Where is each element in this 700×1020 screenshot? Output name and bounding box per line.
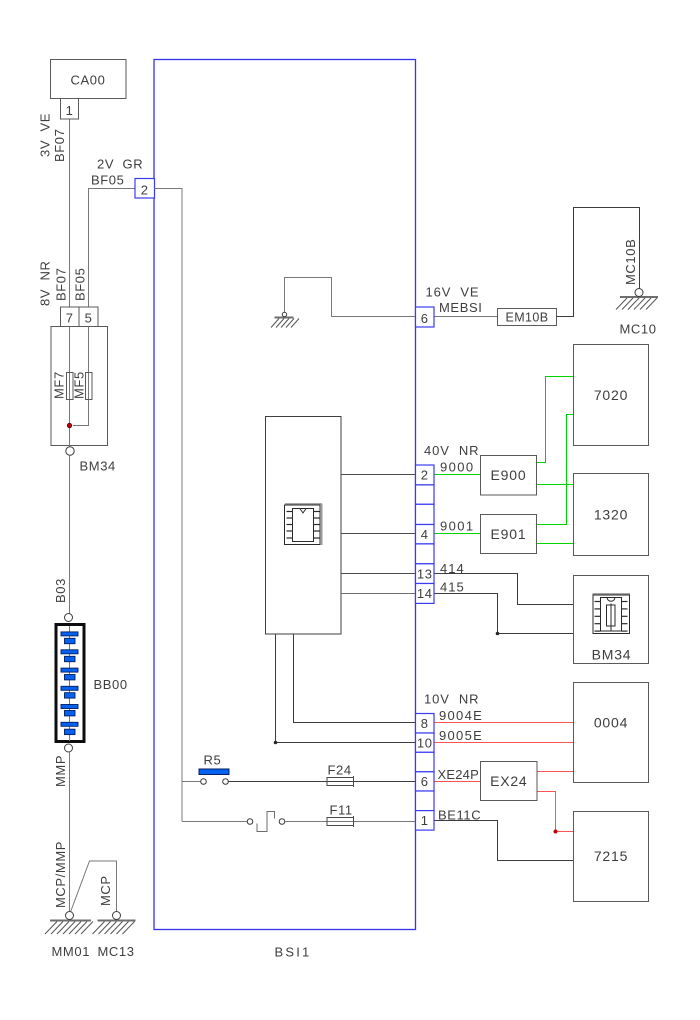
wire pin1 to 7215 (434, 821, 574, 861)
svg-text:2: 2 (421, 468, 429, 483)
svg-text:MMP: MMP (53, 755, 68, 787)
wire EM10B to ground MC10 (557, 208, 640, 317)
svg-text:BM34: BM34 (80, 459, 116, 474)
fuse F11 (327, 818, 354, 826)
svg-text:3V VE: 3V VE (38, 113, 53, 157)
svg-text:BF05: BF05 (72, 268, 87, 301)
red wire pin10 to 0004 (434, 742, 574, 744)
wire module to pin4 (341, 533, 416, 535)
wire through fuse MF7 (69, 327, 71, 448)
pin box (unlabeled) (416, 791, 435, 811)
wire branch to relay R5 (182, 781, 201, 783)
ground symbol inside BSI (271, 312, 299, 327)
svg-text:MF7: MF7 (51, 371, 66, 399)
svg-text:MC10B: MC10B (623, 239, 638, 285)
switch contact in BE11C line (247, 812, 285, 832)
green wire E900 to 7020 (537, 377, 574, 463)
green wire E900 to 1320 (537, 484, 574, 486)
component 7215 (574, 812, 649, 902)
pin 1 of CA00 (61, 99, 79, 120)
wire module to pin14 (341, 593, 416, 595)
fuse MF5 (86, 373, 93, 400)
pin 4 of BSI1 (416, 525, 435, 544)
svg-text:9005E: 9005E (439, 728, 483, 743)
green wire E901 to 1320 (537, 543, 574, 545)
pin 10 of BSI1 (416, 733, 435, 752)
pin 2 of BSI1 (416, 465, 435, 485)
svg-text:1320: 1320 (594, 507, 628, 523)
pin 2 of BSI1 (left edge) (135, 179, 155, 199)
svg-text:9004E: 9004E (439, 708, 483, 723)
node battery - terminal (65, 744, 73, 752)
pin 6 of BSI1 (416, 772, 435, 791)
pin box (unlabeled) (416, 752, 435, 772)
wire pin2 to pin5 (89, 189, 136, 308)
junction dot MF5/MF7 (67, 423, 71, 427)
pin 7 (61, 307, 80, 327)
svg-text:5: 5 (85, 311, 93, 326)
svg-text:MC13: MC13 (98, 944, 135, 959)
wire battery to ground MM01 (69, 752, 71, 912)
fuse F24 (327, 778, 354, 786)
wire switch to pin1 (285, 821, 416, 823)
component 1320 (574, 474, 649, 556)
pin box (unlabeled) (416, 544, 435, 564)
wire pin1 CA00 to pin7 (69, 119, 71, 307)
svg-text:9000: 9000 (440, 460, 475, 475)
svg-text:MM01: MM01 (52, 944, 91, 959)
pin 13 of BSI1 (416, 564, 435, 584)
component 0004 (574, 683, 649, 783)
svg-text:BB00: BB00 (94, 677, 128, 692)
svg-text:1: 1 (421, 813, 429, 828)
svg-text:6: 6 (421, 774, 429, 789)
svg-text:7020: 7020 (594, 387, 628, 403)
svg-text:1: 1 (66, 103, 74, 118)
wire BM34 to battery (69, 455, 71, 613)
svg-text:XE24P: XE24P (438, 767, 479, 782)
red wire pin8 to 0004 (434, 722, 574, 724)
wire pin14 to BM34 (434, 594, 574, 634)
fuse box BM34 outline (51, 327, 108, 446)
ground MM01 (45, 912, 93, 935)
connector EX24 (481, 762, 538, 801)
svg-text:E900: E900 (491, 467, 527, 483)
IC symbol inside BM34 (593, 594, 631, 634)
svg-text:MCP: MCP (98, 875, 113, 906)
green wire pin2 to E900 (434, 474, 481, 476)
pin 5 (79, 307, 98, 327)
node BM34 terminal (66, 447, 74, 455)
svg-text:0004: 0004 (594, 715, 628, 731)
pin 14 of BSI1 (416, 584, 435, 604)
svg-text:14: 14 (417, 586, 433, 601)
svg-text:R5: R5 (204, 753, 222, 768)
svg-text:415: 415 (440, 580, 465, 595)
wire branch MM01 to MC13 (71, 861, 117, 912)
ECU box BSI1 outline (154, 60, 416, 930)
connector E901 (481, 515, 537, 554)
component BM34 (574, 576, 649, 664)
svg-text:BM34: BM34 (592, 647, 632, 663)
svg-text:MC10: MC10 (620, 322, 657, 337)
ground wire inside BSI to pin6 (285, 278, 416, 317)
pin 8 of BSI1 (416, 714, 435, 734)
svg-text:40V NR: 40V NR (424, 443, 479, 458)
svg-text:6: 6 (421, 311, 429, 326)
svg-text:B03: B03 (53, 578, 68, 603)
component CA00 (51, 60, 127, 99)
module box inside BSI (266, 417, 342, 635)
svg-text:BSI1: BSI1 (275, 945, 312, 960)
svg-text:10V NR: 10V NR (424, 692, 479, 707)
svg-text:2V GR: 2V GR (97, 157, 143, 172)
svg-text:EM10B: EM10B (506, 311, 549, 325)
fuse MF7 (67, 373, 74, 400)
wire to switch (182, 821, 247, 823)
wire R5 to pin6 (229, 781, 416, 783)
IC symbol U1 (285, 504, 323, 545)
wire pin6 to EM10B (434, 316, 498, 318)
green wire E901 to 7020 (537, 415, 574, 525)
svg-text:BF05: BF05 (91, 173, 124, 188)
svg-text:10: 10 (417, 735, 433, 750)
svg-text:E901: E901 (491, 526, 527, 542)
red wire pin6 to EX24 (434, 781, 481, 783)
wire module to pin13 (341, 573, 416, 575)
svg-text:2: 2 (141, 183, 149, 198)
svg-text:16V VE: 16V VE (426, 285, 480, 300)
svg-text:8V NR: 8V NR (37, 260, 52, 306)
connector E900 (481, 456, 537, 496)
green wire pin4 to E901 (434, 533, 481, 535)
connector EM10B (498, 309, 557, 326)
junction dot red wire (554, 830, 558, 834)
svg-text:MCP/MMP: MCP/MMP (53, 841, 68, 908)
svg-text:BF07: BF07 (52, 129, 67, 162)
wire module to pin10 (276, 634, 416, 743)
svg-text:CA00: CA00 (71, 73, 106, 88)
svg-text:BE11C: BE11C (438, 808, 481, 823)
pin box (unlabeled) (416, 504, 435, 524)
wire module to pin2 col (341, 474, 416, 476)
svg-text:414: 414 (440, 561, 465, 576)
svg-text:4: 4 (421, 527, 429, 542)
ground MC10 (616, 289, 658, 310)
svg-text:EX24: EX24 (490, 773, 527, 789)
svg-text:9001: 9001 (440, 519, 475, 534)
node battery + terminal (65, 614, 73, 622)
battery BB00 (56, 625, 84, 742)
red wire EX24 to 0004 (537, 771, 574, 773)
wire module to pin8 (294, 634, 416, 723)
relay R5 (199, 769, 229, 784)
pin box (unlabeled) (416, 485, 435, 504)
wire through fuse MF5 (73, 327, 89, 426)
ground MC13 (93, 912, 136, 935)
svg-text:13: 13 (417, 566, 433, 581)
svg-text:8: 8 (421, 716, 429, 731)
svg-text:F11: F11 (330, 803, 353, 818)
svg-text:BF07: BF07 (53, 268, 68, 301)
red wire EX24 to 7215 (537, 792, 574, 832)
svg-text:MF5: MF5 (71, 371, 86, 399)
pin 1 of BSI1 (416, 811, 435, 831)
pin 6 MEBSI (416, 307, 435, 327)
wire pin2 internal feed (155, 189, 183, 822)
svg-text:MEBSI: MEBSI (439, 300, 482, 315)
svg-text:7215: 7215 (594, 848, 628, 864)
svg-text:F24: F24 (328, 763, 352, 778)
component 7020 (574, 345, 649, 446)
wire pin13 to BM34 (434, 574, 574, 605)
svg-text:7: 7 (66, 311, 74, 326)
